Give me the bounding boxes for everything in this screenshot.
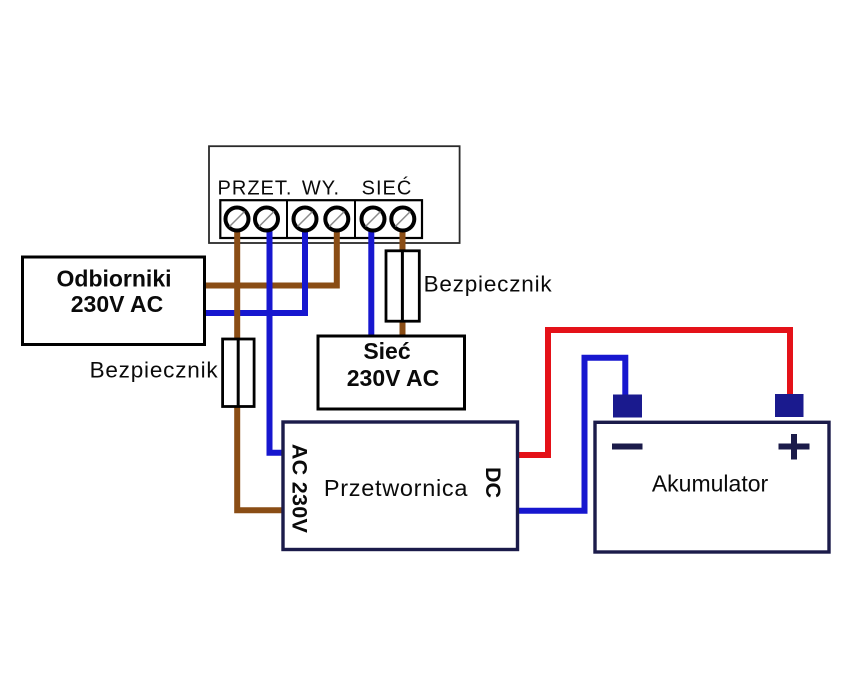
svg-text:DC: DC	[481, 467, 505, 498]
battery terminal minus post	[613, 395, 642, 418]
screw terminal 3	[294, 208, 317, 231]
wire blue terminal5 to Siec box	[368, 229, 374, 337]
svg-text:Przetwornica: Przetwornica	[324, 475, 468, 501]
wire brown terminal1 through fuse to Przetwornica AC input	[237, 229, 284, 510]
screw terminal 4	[325, 208, 348, 231]
wire blue terminal3 to Odbiorniki	[205, 229, 305, 313]
screw terminal 5	[362, 208, 385, 231]
minus symbol	[612, 444, 643, 450]
screw terminal 2	[255, 208, 278, 231]
terminal block outer box	[209, 146, 460, 243]
plus symbol	[779, 434, 810, 460]
svg-text:Odbiorniki: Odbiorniki	[57, 266, 172, 292]
wire brown terminal4 to Odbiorniki	[205, 229, 337, 286]
screw terminal 1	[226, 208, 249, 231]
battery terminal plus post	[775, 394, 804, 417]
battery box Akumulator	[595, 422, 829, 552]
svg-text:230V AC: 230V AC	[347, 365, 439, 391]
box Odbiorniki 230V AC	[23, 257, 205, 345]
wire brown terminal6 through fuse to Siec box	[400, 229, 406, 337]
svg-text:Bezpiecznik: Bezpiecznik	[424, 272, 553, 297]
terminal label WY.	[302, 178, 340, 200]
wire red Przetwornica DC+ to battery plus	[516, 330, 790, 455]
label Bezpiecznik right	[424, 272, 553, 297]
terminal label PRZET.	[218, 178, 293, 200]
svg-text:WY.: WY.	[302, 178, 340, 200]
svg-text:Sieć: Sieć	[363, 338, 411, 364]
rotated label DC	[481, 467, 505, 498]
svg-text:230V AC: 230V AC	[71, 291, 163, 317]
svg-text:Akumulator: Akumulator	[652, 471, 769, 497]
terminal label SIEC	[362, 177, 413, 200]
svg-text:Bezpiecznik: Bezpiecznik	[90, 358, 219, 383]
screw terminal 6	[391, 208, 414, 231]
fuse F1 left	[223, 339, 255, 407]
wire blue terminal2 to Przetwornica AC input	[270, 229, 285, 453]
svg-text:AC 230V: AC 230V	[288, 444, 312, 534]
rotated label AC 230V	[288, 444, 312, 534]
svg-text:SIEĆ: SIEĆ	[362, 177, 413, 200]
box Siec 230V AC	[318, 336, 465, 409]
converter box Przetwornica	[283, 422, 518, 550]
terminal strip	[220, 200, 422, 238]
fuse F2 right	[386, 251, 419, 321]
svg-text:PRZET.: PRZET.	[218, 178, 293, 200]
wire blue Przetwornica DC- to battery minus	[516, 358, 625, 511]
label Bezpiecznik left	[90, 358, 219, 383]
